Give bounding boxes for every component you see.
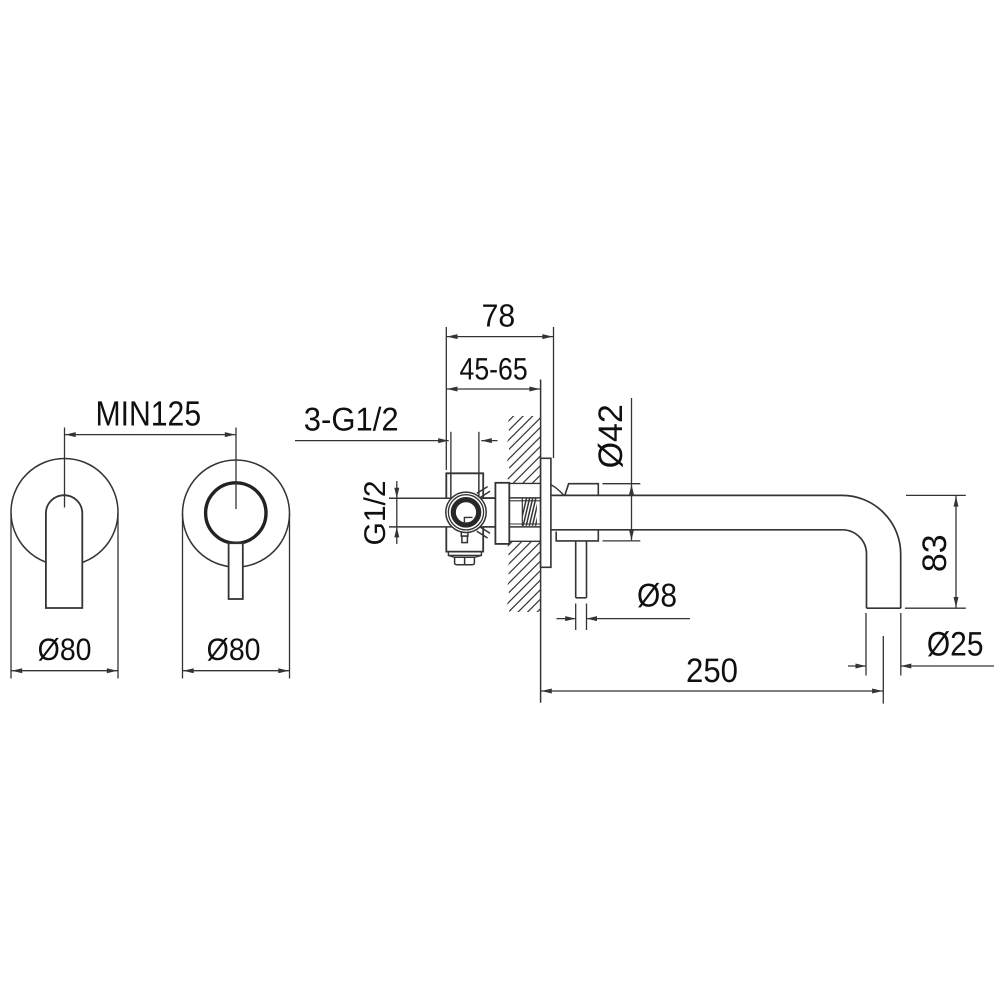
cartridge outer rings xyxy=(446,492,486,532)
top port bore inside body xyxy=(450,473,452,498)
centre line left plate xyxy=(64,428,66,508)
wall section hatching xyxy=(290,395,764,630)
svg-text:G1/2: G1/2 xyxy=(359,480,392,545)
svg-text:Ø25: Ø25 xyxy=(927,625,984,663)
dimension Ø42 xyxy=(603,483,641,485)
dimension 250 xyxy=(882,636,884,704)
cartridge dark ring xyxy=(453,500,478,525)
connector plate xyxy=(495,483,509,544)
cartridge tab lower-right xyxy=(477,531,488,538)
neck lines between body and connector xyxy=(483,497,495,499)
cartridge stem xyxy=(461,530,468,537)
dimension MIN125 xyxy=(65,434,237,436)
cartridge notch xyxy=(464,517,472,524)
spout front view xyxy=(46,495,82,608)
spout outlet end xyxy=(867,607,901,609)
svg-text:Ø8: Ø8 xyxy=(637,577,677,614)
centre line right plate xyxy=(235,428,237,510)
top port bore lines (3-G1/2 extension) xyxy=(450,432,452,498)
svg-text:Ø80: Ø80 xyxy=(38,632,92,667)
dimension Ø80 left xyxy=(10,513,12,679)
wall hole bottom edge xyxy=(509,540,540,542)
dimension 83 xyxy=(906,494,966,496)
cartridge tab upper-right xyxy=(477,487,488,494)
handle knob xyxy=(206,483,266,543)
wall face line xyxy=(540,380,542,703)
dimension 78 xyxy=(445,327,447,470)
wall hole top edge xyxy=(509,482,540,484)
wall flange xyxy=(541,458,551,567)
wall plate left Ø80 xyxy=(11,459,118,566)
pipe through wall xyxy=(509,497,540,499)
svg-text:Ø80: Ø80 xyxy=(207,632,261,667)
outlet stub Ø8 xyxy=(575,541,577,598)
dimension Ø8 xyxy=(575,604,577,631)
handle stem xyxy=(229,543,243,599)
svg-text:Ø42: Ø42 xyxy=(592,404,630,468)
wall plate right Ø80 xyxy=(183,460,290,567)
dimension Ø80 right xyxy=(182,514,184,679)
valve base plate xyxy=(448,552,481,556)
svg-text:3-G1/2: 3-G1/2 xyxy=(304,401,399,438)
svg-text:83: 83 xyxy=(916,534,954,572)
valve nut xyxy=(455,557,475,564)
spout tube xyxy=(551,494,842,496)
svg-text:45-65: 45-65 xyxy=(460,351,528,386)
collar Ø42 bottom xyxy=(556,530,598,541)
svg-text:MIN125: MIN125 xyxy=(96,395,202,434)
base trapezoid xyxy=(448,555,454,557)
svg-text:250: 250 xyxy=(686,652,738,690)
collar Ø42 top xyxy=(551,485,564,495)
dimension 45-65 xyxy=(446,388,540,390)
valve body xyxy=(446,473,483,551)
dimension Ø25 xyxy=(865,613,867,676)
side port G1/2 outline / extension lines xyxy=(389,497,495,499)
dimension G1/2 xyxy=(396,481,398,544)
svg-text:78: 78 xyxy=(482,297,516,333)
